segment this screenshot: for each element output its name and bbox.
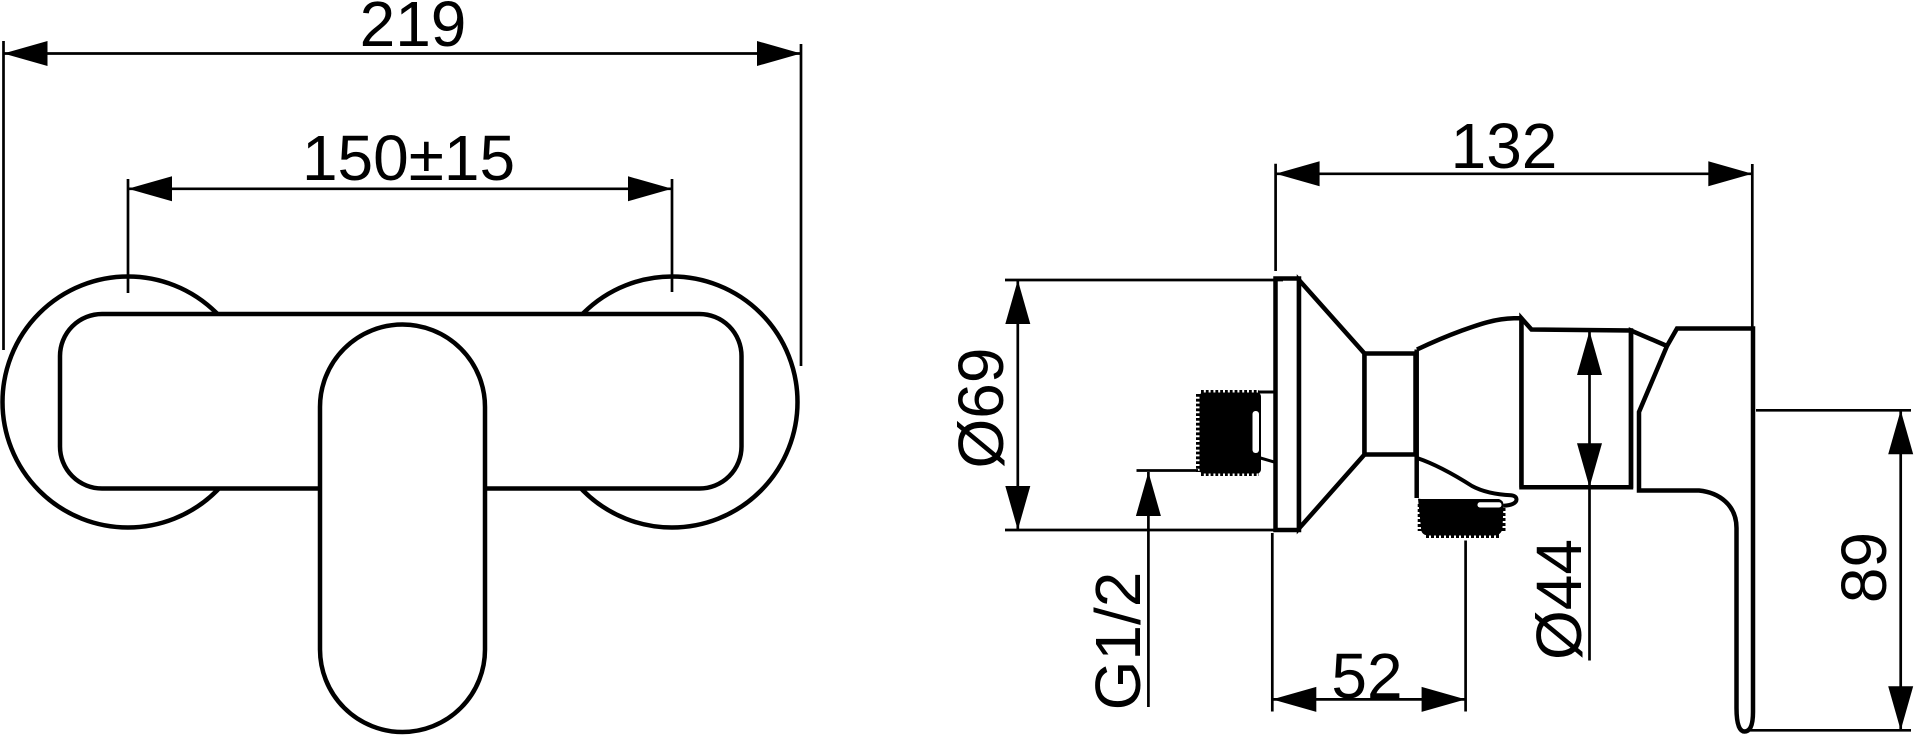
svg-text:Ø44: Ø44 [1523,539,1595,660]
svg-text:52: 52 [1331,640,1402,712]
svg-text:132: 132 [1451,110,1558,182]
svg-text:89: 89 [1828,532,1900,603]
svg-text:219: 219 [360,0,467,60]
svg-text:150±15: 150±15 [302,122,515,194]
svg-text:Ø69: Ø69 [945,348,1017,469]
svg-text:G1/2: G1/2 [1082,572,1154,711]
